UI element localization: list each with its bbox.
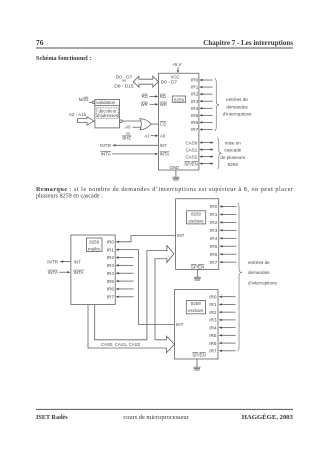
svg-text:HAGGÈGE, 2003: HAGGÈGE, 2003 bbox=[242, 413, 294, 421]
svg-text:8259: 8259 bbox=[228, 162, 239, 167]
svg-text:INT: INT bbox=[74, 259, 82, 264]
svg-text:entrées de: entrées de bbox=[248, 260, 270, 265]
svg-text:ou: ou bbox=[122, 77, 126, 82]
svg-text:IR1: IR1 bbox=[107, 247, 115, 252]
svg-text:IR6: IR6 bbox=[107, 287, 115, 292]
svg-text:IR4: IR4 bbox=[107, 271, 115, 276]
svg-text:INTA: INTA bbox=[160, 152, 170, 157]
svg-text:INT: INT bbox=[160, 143, 167, 148]
svg-text:D8 - D15: D8 - D15 bbox=[114, 84, 134, 90]
svg-text:cascade: cascade bbox=[224, 148, 242, 153]
svg-text:8259: 8259 bbox=[191, 301, 201, 306]
svg-text:8259: 8259 bbox=[89, 239, 99, 244]
svg-text:A0: A0 bbox=[125, 125, 131, 130]
svg-text:SP/EN: SP/EN bbox=[192, 352, 206, 357]
svg-text:ISET Radès: ISET Radès bbox=[36, 414, 68, 421]
svg-text:IR5: IR5 bbox=[191, 113, 199, 118]
svg-text:IR0: IR0 bbox=[210, 204, 218, 209]
svg-text:plusieurs 8259 en cascade :: plusieurs 8259 en cascade : bbox=[36, 194, 103, 200]
svg-text:maître: maître bbox=[88, 246, 101, 251]
svg-text:IR4: IR4 bbox=[210, 236, 218, 241]
svg-text:IR2: IR2 bbox=[107, 255, 115, 260]
svg-text:INT: INT bbox=[177, 233, 185, 238]
svg-text:IR0: IR0 bbox=[191, 78, 199, 83]
svg-text:IR3: IR3 bbox=[107, 263, 115, 268]
svg-text:IR0: IR0 bbox=[209, 294, 217, 299]
svg-text:d’interruptions: d’interruptions bbox=[223, 111, 253, 116]
svg-text:IR3: IR3 bbox=[210, 228, 218, 233]
svg-text:Remarque : si le nombre de dem: Remarque : si le nombre de demandes d’in… bbox=[36, 187, 293, 193]
svg-text:+5 V: +5 V bbox=[172, 62, 183, 67]
svg-text:IR5: IR5 bbox=[107, 279, 115, 284]
svg-text:IR1: IR1 bbox=[191, 85, 199, 90]
svg-text:CAS0, CAS1, CAS2: CAS0, CAS1, CAS2 bbox=[101, 342, 141, 347]
svg-text:RD: RD bbox=[142, 94, 148, 99]
svg-text:IR3: IR3 bbox=[209, 318, 217, 323]
svg-text:esclave: esclave bbox=[188, 308, 204, 313]
svg-text:8259: 8259 bbox=[191, 211, 201, 216]
svg-text:A2 - A15: A2 - A15 bbox=[69, 112, 87, 117]
svg-text:A1: A1 bbox=[144, 133, 150, 138]
svg-text:IR7: IR7 bbox=[191, 127, 199, 132]
svg-text:RD: RD bbox=[160, 94, 166, 99]
svg-text:INTR: INTR bbox=[100, 143, 111, 148]
svg-text:IR5: IR5 bbox=[210, 244, 218, 249]
svg-text:IR4: IR4 bbox=[191, 106, 199, 111]
svg-text:mise en: mise en bbox=[225, 141, 242, 146]
svg-text:cours de microprocesseur: cours de microprocesseur bbox=[123, 414, 189, 421]
svg-text:Schéma fonctionnel :: Schéma fonctionnel : bbox=[36, 55, 91, 62]
svg-text:CAS2: CAS2 bbox=[186, 154, 198, 159]
svg-text:IR2: IR2 bbox=[210, 220, 218, 225]
svg-text:CAS0: CAS0 bbox=[186, 140, 198, 145]
svg-text:WR: WR bbox=[160, 102, 167, 107]
svg-text:GND: GND bbox=[170, 165, 180, 170]
svg-text:IR0: IR0 bbox=[107, 240, 115, 245]
svg-text:esclave: esclave bbox=[188, 218, 204, 223]
svg-text:BHE: BHE bbox=[122, 136, 131, 141]
svg-text:IR2: IR2 bbox=[209, 310, 217, 315]
svg-text:Chapitre 7 - Les interruptions: Chapitre 7 - Les interruptions bbox=[203, 39, 293, 47]
svg-text:IR6: IR6 bbox=[191, 120, 199, 125]
svg-text:WR: WR bbox=[141, 102, 148, 107]
svg-text:CAS1: CAS1 bbox=[186, 147, 198, 152]
svg-text:IR7: IR7 bbox=[209, 349, 217, 354]
svg-text:SP/EN: SP/EN bbox=[184, 161, 198, 166]
svg-text:A0: A0 bbox=[160, 133, 166, 138]
svg-text:IR6: IR6 bbox=[209, 341, 217, 346]
svg-text:D0 - D7: D0 - D7 bbox=[161, 79, 178, 84]
svg-text:ou: ou bbox=[126, 130, 130, 135]
svg-text:SP/EN: SP/EN bbox=[191, 264, 205, 269]
svg-text:IR7: IR7 bbox=[210, 260, 218, 265]
svg-text:IR1: IR1 bbox=[209, 302, 217, 307]
svg-text:INTR: INTR bbox=[47, 259, 58, 264]
svg-text:IR2: IR2 bbox=[191, 92, 199, 97]
svg-text:CS: CS bbox=[160, 121, 166, 126]
svg-text:d’adresses: d’adresses bbox=[97, 113, 119, 118]
svg-text:M/IO: M/IO bbox=[79, 97, 89, 102]
svg-text:de plusieurs: de plusieurs bbox=[220, 155, 245, 160]
svg-text:IR7: IR7 bbox=[107, 295, 115, 300]
svg-text:d’interruptions: d’interruptions bbox=[248, 280, 278, 285]
svg-text:IR3: IR3 bbox=[191, 99, 199, 104]
svg-text:entrées de: entrées de bbox=[226, 97, 248, 102]
svg-text:INTA: INTA bbox=[101, 152, 112, 157]
svg-text:INTA: INTA bbox=[74, 270, 85, 275]
svg-text:8259: 8259 bbox=[174, 97, 185, 102]
svg-text:IR4: IR4 bbox=[209, 325, 217, 330]
svg-text:IR1: IR1 bbox=[210, 212, 218, 217]
svg-text:demandes: demandes bbox=[226, 104, 248, 109]
svg-text:76: 76 bbox=[36, 38, 44, 47]
svg-text:validation: validation bbox=[96, 100, 116, 105]
svg-text:IR6: IR6 bbox=[210, 252, 218, 257]
svg-text:INT: INT bbox=[176, 322, 184, 327]
svg-text:INTA: INTA bbox=[48, 270, 59, 275]
svg-text:IR5: IR5 bbox=[209, 333, 217, 338]
svg-text:demandes: demandes bbox=[248, 270, 270, 275]
